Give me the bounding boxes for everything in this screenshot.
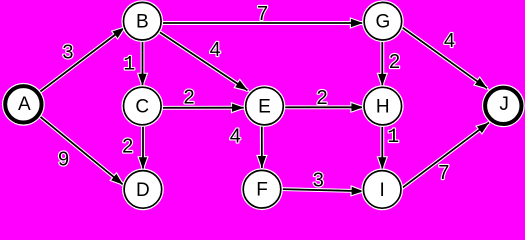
svg-text:9: 9 xyxy=(58,148,69,170)
svg-text:I: I xyxy=(380,180,385,201)
svg-text:3: 3 xyxy=(62,41,73,63)
svg-text:A: A xyxy=(18,94,31,115)
svg-text:2: 2 xyxy=(183,87,194,109)
svg-text:4: 4 xyxy=(210,39,221,61)
svg-text:1: 1 xyxy=(123,54,135,77)
svg-text:7: 7 xyxy=(438,162,449,184)
svg-text:H: H xyxy=(376,97,390,118)
svg-text:E: E xyxy=(258,97,271,118)
svg-text:7: 7 xyxy=(257,3,268,25)
svg-text:G: G xyxy=(376,12,391,33)
svg-text:F: F xyxy=(256,180,268,201)
svg-text:4: 4 xyxy=(444,30,455,52)
svg-text:2: 2 xyxy=(122,136,133,158)
svg-text:3: 3 xyxy=(313,169,324,191)
svg-text:1: 1 xyxy=(387,126,399,149)
svg-text:4: 4 xyxy=(230,125,241,147)
svg-text:2: 2 xyxy=(389,51,400,73)
svg-text:J: J xyxy=(499,94,509,115)
svg-text:C: C xyxy=(135,97,149,118)
svg-text:2: 2 xyxy=(316,87,327,109)
svg-text:B: B xyxy=(136,12,149,33)
svg-text:D: D xyxy=(136,180,150,201)
